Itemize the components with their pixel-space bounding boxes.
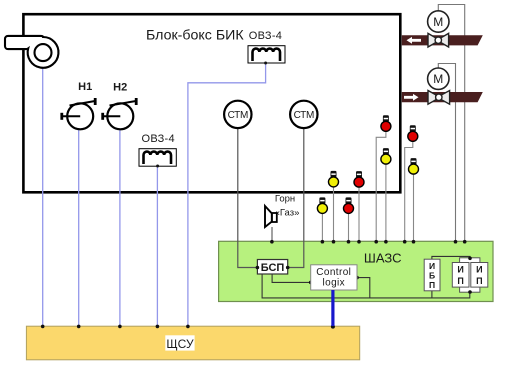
wire lower ОВЗ-4 coil to ЩСУ <box>156 166 158 326</box>
heater ОВЗ-4 lower <box>139 133 176 167</box>
wire lamp C <box>376 131 386 241</box>
lamp A (yellow) <box>329 171 339 187</box>
wire lamp F <box>413 174 415 241</box>
svg-text:П: П <box>429 280 435 290</box>
wire lamp D <box>385 164 387 241</box>
horn Горн «Газ» <box>265 194 299 228</box>
svg-text:СТМ: СТМ <box>294 110 314 121</box>
arrow right on lower pipe <box>404 94 419 101</box>
wire H1 to ЩСУ <box>78 129 80 326</box>
pump H1 <box>60 81 96 130</box>
svg-text:ОВЗ-4: ОВЗ-4 <box>249 30 282 42</box>
label ЩСУ <box>165 335 194 350</box>
wire БСП bottom rail <box>262 274 470 298</box>
arrow left on upper pipe <box>407 37 422 44</box>
pipe upper <box>402 35 483 45</box>
lamp C (red) <box>381 115 391 131</box>
svg-text:ОВЗ-4: ОВЗ-4 <box>141 133 174 145</box>
wire fan to ЩСУ <box>42 68 44 326</box>
fan (вентилятор) <box>5 36 58 68</box>
valve upper <box>428 33 449 47</box>
svg-text:П: П <box>457 276 463 286</box>
svg-text:М: М <box>433 72 443 86</box>
wire БСП to Control logix <box>272 274 311 282</box>
wire ИБП top link <box>432 256 470 259</box>
wire lamp G <box>321 213 323 241</box>
svg-text:И: И <box>429 261 435 271</box>
block Control logix <box>311 265 357 290</box>
svg-text:ЩСУ: ЩСУ <box>166 337 194 351</box>
lamp H (red) <box>344 197 354 213</box>
svg-text:Н1: Н1 <box>78 81 92 93</box>
motor M2 <box>428 68 449 89</box>
valve lower <box>428 91 450 105</box>
motor M1 <box>428 11 449 32</box>
svg-text:И: И <box>457 265 463 275</box>
wire motor M1 to ШАЗС <box>438 5 464 242</box>
svg-text:П: П <box>476 276 482 286</box>
svg-text:logix: logix <box>323 278 346 289</box>
block И/П right <box>471 263 488 288</box>
svg-text:Н2: Н2 <box>113 81 127 93</box>
cabinet ЩСУ (yellow) <box>26 326 359 360</box>
lamp F (yellow) <box>409 158 419 174</box>
svg-text:Блок-бокс БИК: Блок-бокс БИК <box>146 28 244 44</box>
svg-text:БСП: БСП <box>261 262 285 274</box>
svg-text:Б: Б <box>429 271 435 281</box>
lamp E (red) <box>408 125 418 141</box>
block И/П left <box>452 263 469 288</box>
wire upper ОВЗ-4 coil to ЩСУ <box>188 63 266 326</box>
wire СТМ2 to БСП <box>288 128 304 267</box>
wire H2 to ЩСУ <box>119 129 121 326</box>
wire horn to ШАЗС <box>271 227 273 242</box>
wire lamp A <box>333 187 335 242</box>
lamp G (yellow) <box>317 197 327 213</box>
pipe lower <box>402 92 483 102</box>
junction dots on ШАЗС top <box>270 240 466 244</box>
wire Control logix to ЩСУ (thick blue) <box>331 290 334 326</box>
cabinet ШАЗС (green) <box>219 241 493 301</box>
wire motor M2 to ШАЗС <box>438 64 455 242</box>
sensor СТМ2 <box>290 101 317 128</box>
lamp B (red) <box>354 171 364 187</box>
block БСП <box>257 260 287 275</box>
wire lamp H <box>348 213 350 241</box>
junction dots on ЩСУ top <box>41 325 335 329</box>
sensor СТМ1 <box>224 101 251 128</box>
svg-text:Горн: Горн <box>275 194 295 205</box>
svg-text:СТМ: СТМ <box>228 110 248 121</box>
svg-text:И: И <box>476 265 482 275</box>
svg-text:ШАЗС: ШАЗС <box>364 251 402 266</box>
lamp D (yellow) <box>381 148 391 164</box>
wire СТМ1 to БСП <box>238 128 258 267</box>
svg-text:Control: Control <box>316 267 351 278</box>
pump H2 <box>101 81 137 129</box>
block ИБП <box>424 259 440 291</box>
heater ОВЗ-4 upper <box>248 30 285 65</box>
block И/П backing frame <box>460 258 480 292</box>
wire Control logix right <box>357 278 370 298</box>
enclosure Блок-бокс БИК <box>23 14 400 192</box>
wire lamp B <box>358 187 360 241</box>
wire ИБП bottom link <box>431 291 433 298</box>
wire lamp E <box>405 141 413 241</box>
svg-text:М: М <box>433 15 443 29</box>
svg-text:«Газ»: «Газ» <box>275 208 300 219</box>
